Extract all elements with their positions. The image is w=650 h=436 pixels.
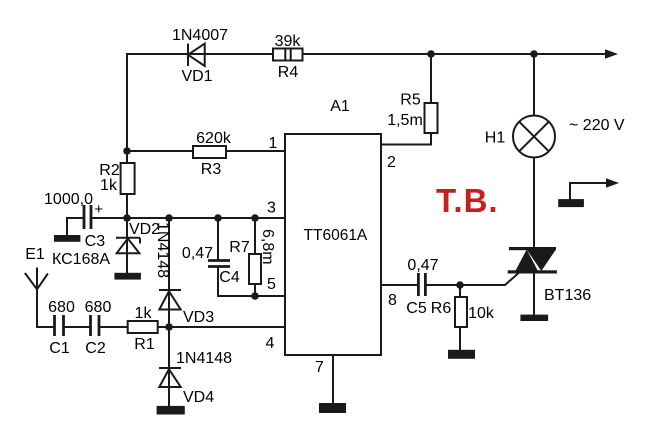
wire: neutral return arrow	[570, 183, 607, 199]
svg-text:8: 8	[388, 292, 397, 309]
svg-text:680: 680	[48, 299, 75, 316]
svg-text:R3: R3	[201, 161, 222, 178]
svg-text:E1: E1	[25, 246, 45, 263]
resistor R3 620k	[193, 146, 226, 158]
wire: antenna / R1 / pin-4 line	[37, 269, 285, 328]
svg-text:R6: R6	[431, 300, 452, 317]
wire: lamp branch from top rail	[533, 54, 535, 116]
svg-text:39k: 39k	[275, 33, 302, 50]
wire: C4 branch	[217, 218, 219, 296]
svg-text:1N4007: 1N4007	[172, 27, 228, 44]
ground: VD4 bar	[157, 406, 185, 415]
node: junction R7/bus	[251, 214, 259, 222]
diode VD1 (1N4007)	[188, 44, 205, 66]
svg-text:C1: C1	[49, 340, 70, 357]
svg-text:5: 5	[267, 276, 276, 293]
svg-text:VD3: VD3	[183, 309, 214, 326]
svg-text:0,47: 0,47	[182, 245, 213, 262]
svg-text:R7: R7	[229, 239, 250, 256]
svg-text:C2: C2	[85, 340, 106, 357]
svg-text:R4: R4	[278, 64, 299, 81]
capacitor C4 0,47	[208, 261, 230, 267]
svg-text:C5: C5	[406, 300, 427, 317]
wire: triac to ground	[533, 273, 535, 315]
svg-text:680: 680	[85, 299, 112, 316]
node: junction C4/bus	[214, 214, 222, 222]
wire: pin-5 line	[218, 295, 285, 297]
svg-text:Т.В.: Т.В.	[436, 182, 499, 219]
zener VD2 KC168A	[116, 238, 140, 254]
node: junction top rail/R5	[427, 50, 435, 58]
ground: R6 bar	[448, 350, 475, 359]
svg-text:BT136: BT136	[544, 287, 591, 304]
svg-text:3: 3	[267, 200, 276, 217]
wire: top rail from left rail corner to mains arrow	[127, 53, 606, 55]
node: junction rail/R3	[123, 147, 131, 155]
arrow: mains neutral (right middle)	[606, 178, 619, 188]
op-amp U1: IC A1 TT6061A box	[285, 134, 381, 355]
svg-text:C4: C4	[219, 269, 240, 286]
ground: C3 common bar	[54, 235, 80, 242]
node: junction C5/R6/gate	[456, 281, 464, 289]
wire: R6 branch to ground	[459, 285, 461, 350]
node: junction VD3/bus	[165, 214, 173, 222]
svg-text:R1: R1	[134, 336, 155, 353]
capacitor C2 680	[91, 315, 100, 336]
svg-text:R5: R5	[400, 92, 421, 109]
svg-text:TT6061A: TT6061A	[304, 227, 368, 244]
ground: pin 7 bar	[319, 403, 346, 413]
node: junction R7/pin5	[251, 292, 259, 300]
wire: VD3 branch bus to pin-4 line	[168, 218, 170, 327]
svg-text:A1: A1	[330, 98, 350, 115]
resistor R4 39k	[273, 49, 303, 61]
svg-text:+: +	[94, 201, 103, 218]
wire: pin-3 bus	[67, 217, 285, 219]
wire: VD2 branch to ground	[126, 218, 128, 273]
capacitor C1 680	[55, 315, 64, 336]
triac VS1 BT136	[508, 247, 557, 274]
svg-text:1N4148: 1N4148	[176, 350, 232, 367]
node: junction top rail/lamp	[530, 50, 538, 58]
svg-text:6,8m: 6,8m	[259, 229, 276, 265]
svg-text:1N4148: 1N4148	[154, 222, 171, 278]
diode VD4 (1N4148)	[159, 368, 181, 387]
svg-text:1,5m: 1,5m	[387, 112, 423, 129]
wire: lamp to triac	[533, 158, 535, 249]
wire: C3 ground drop	[66, 218, 68, 236]
capacitor C3 1000,0 electrolytic	[84, 205, 91, 229]
resistor R6 10k	[455, 297, 467, 327]
resistor R2 1k	[121, 163, 135, 194]
node: junction rail/bus	[123, 214, 131, 222]
svg-text:VD1: VD1	[181, 68, 212, 85]
svg-text:~ 220 V: ~ 220 V	[569, 117, 625, 134]
diode VD3 (1N4148)	[159, 290, 181, 310]
wire: R3 line from rail to IC pin 1	[127, 150, 285, 152]
svg-text:1000,0: 1000,0	[44, 191, 93, 208]
wire: pin-8 line through C5 to triac gate	[381, 274, 518, 286]
wire: R7 branch	[254, 218, 256, 296]
svg-text:10k: 10k	[468, 305, 495, 322]
svg-text:4: 4	[266, 335, 275, 352]
wire: left vertical rail x=127	[126, 54, 128, 218]
resistor R1 1k	[128, 321, 158, 333]
svg-text:КС168А: КС168А	[52, 251, 110, 268]
svg-text:7: 7	[315, 359, 324, 376]
lamp H1	[513, 116, 555, 158]
wire: R5 branch from top rail to IC pin 2	[381, 54, 431, 145]
svg-text:C3: C3	[85, 233, 106, 250]
antenna E1 sensor plate	[25, 273, 48, 289]
svg-text:1k: 1k	[135, 305, 153, 322]
wire: pin-7 drop to ground	[332, 355, 334, 403]
svg-text:620k: 620k	[196, 130, 232, 147]
wire: VD4 branch to ground	[168, 327, 170, 406]
svg-text:2: 2	[387, 154, 396, 171]
capacitor C5 0,47	[418, 273, 425, 296]
resistor R7 6,8m	[249, 254, 261, 284]
arrow: mains phase (top right)	[605, 49, 618, 59]
svg-text:VD4: VD4	[183, 389, 214, 406]
resistor R5 1,5m	[425, 103, 438, 133]
node: junction R1/VD3/pin4	[165, 323, 173, 331]
ground: triac bar	[520, 315, 548, 321]
ground: VD2 bar	[114, 273, 140, 280]
svg-text:H1: H1	[485, 130, 506, 147]
ground: neutral arrow bar	[558, 199, 584, 207]
svg-text:0,47: 0,47	[407, 257, 438, 274]
svg-text:1: 1	[269, 135, 278, 152]
svg-text:1k: 1k	[100, 177, 118, 194]
